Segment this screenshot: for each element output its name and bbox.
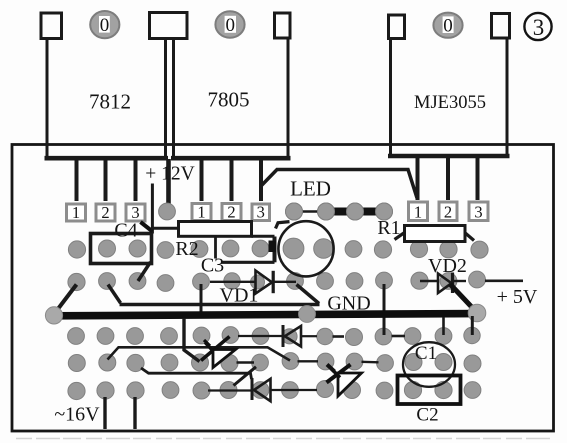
wire: GND bar down to pad E-443 [442,317,445,335]
svg-text:1: 1 [414,202,422,221]
pad grid row E [68,327,481,346]
shared tab corner 7812/7805 [150,13,188,39]
svg-text:R1: R1 [377,217,400,239]
svg-text:MJE3055: MJE3055 [414,93,486,113]
svg-text:GND: GND [327,293,370,315]
wire: pad C-291 diagonal [297,285,320,304]
svg-text:2: 2 [444,202,452,221]
wire: stub from F-321 [327,365,335,372]
GND bus bar [55,314,476,316]
LED outline circle [278,221,333,276]
wire: row F link F-230 to F-261 [237,361,255,363]
pad grid row A [159,203,393,220]
wire: diagonal G-321 to F-352 [327,365,351,383]
svg-text:0: 0 [443,16,453,37]
MJE3055 mounting hole [433,13,462,38]
7812 mounting hole [90,11,119,38]
wire: thin link A291-A321 [294,210,326,212]
resistor R1 [395,226,475,242]
7812 legs pins 1 2 3 [77,161,136,202]
svg-text:+ 12V: + 12V [145,164,194,185]
svg-text:C1: C1 [415,343,437,364]
svg-text:VD2: VD2 [428,255,467,277]
svg-text:7805: 7805 [208,88,250,112]
svg-text:2: 2 [227,202,235,221]
7805 mounting hole [215,11,244,37]
C4 label leader [141,222,153,232]
figure number 3 [524,13,551,40]
wire: thick jumper A321-A383 [326,208,384,216]
wire: row E link E-383 to E-413 [392,335,406,338]
regulator U1 7812 package outline [41,13,168,158]
transistor Q1 MJE3055 package outline [388,14,510,157]
svg-text:3: 3 [533,15,545,40]
wire: GND bar down to pad F-199 [184,318,200,362]
wire: GND bar down to pad E-472 [471,316,474,335]
regulator U2 7805 package outline [171,13,291,158]
board outline [12,145,554,432]
capacitor C4 outline [91,234,152,264]
capacitor C3 outline [216,236,275,262]
capacitor C1 outline [403,342,455,387]
pad grid row G [68,381,481,400]
svg-text:3: 3 [474,202,482,221]
diode VD5 (row G, points left) [252,378,317,401]
pad grid row F [68,353,481,372]
svg-text:0: 0 [225,15,235,36]
svg-text:1: 1 [72,203,80,222]
diode VD2 [420,273,466,294]
wire: +5V output [485,279,523,282]
wire: diagonal F-199 to E-230 [201,337,230,361]
svg-text:1: 1 [197,202,205,221]
C3 polarity mark [269,241,277,253]
MJE3055 pin labels 1 2 3 [409,202,428,221]
LED row pads over jumper [286,203,393,220]
wire: pad F-107 long trace to pad F-291 [108,347,291,360]
wire: +12V stub into C4 [151,184,154,234]
wire: row E stub E-321 to E-352 [333,335,345,338]
svg-text:C2: C2 [416,405,438,426]
diode VD1 [210,271,296,294]
wire: horizontal above GND bar [120,303,320,307]
svg-text:+ 5V: + 5V [497,286,538,308]
wire: C4 corner to pad C-138 [138,262,151,281]
diode VD3 (diagonal, upper) [205,343,236,368]
MJE3055 legs pins 1 2 3 [418,158,478,200]
svg-text:0: 0 [100,15,110,36]
diode VD4 (row E, points left) [283,325,317,347]
wire: row F link F-352 to F-383 [362,361,379,364]
scan artifact line below board [16,438,552,440]
wire: LED stub at circle top [276,222,290,229]
diode VD6 (diagonal, lower) [332,369,362,396]
wire: VD2 to GND pad diagonal [450,284,475,310]
svg-text:3: 3 [257,202,265,221]
pad grid row D [45,304,485,324]
svg-text:2: 2 [101,203,109,222]
svg-text:LED: LED [290,177,331,201]
wire: row F link F-291 to F-321 [298,360,319,362]
resistor R2 [179,222,252,237]
wire: pad C-199 down to GND bar [200,284,203,312]
capacitor C2 outline [398,376,461,405]
svg-text:R2: R2 [175,238,198,260]
wire: centre tab to pad A-168 [166,159,171,206]
wire: pad F-138 trace to row G diode [141,368,252,379]
wire: diagonal F-261 to G-230 [234,367,257,386]
pad C-261 under VD1 [251,275,265,289]
wire: row E link E-230 to diode [238,335,283,337]
wire: stub from E-199 [204,340,210,346]
wire: 7805 pin3 to MJE3055 pin1 [261,170,417,199]
svg-text:C3: C3 [201,255,224,277]
wire: row G link G-199 to diode [208,389,251,391]
pad grid row C [68,271,486,291]
wire: pad C-107 diagonal [108,285,121,304]
pad grid row B [68,238,488,259]
svg-text:7812: 7812 [89,90,131,114]
wire: pad C-383 down to pad E-383 [383,284,386,335]
7812 pin labels 1 2 3 [67,204,86,221]
wire: ~16V input leads [105,397,135,429]
7805 pin labels 1 2 3 [192,204,211,221]
svg-text:C4: C4 [114,220,137,242]
7805 legs pins 1 2 3 [202,161,262,202]
wire: left pad diagonal to C-76 [56,285,77,312]
svg-text:~16V: ~16V [54,404,100,426]
wire: +12V to R2 [151,227,179,230]
